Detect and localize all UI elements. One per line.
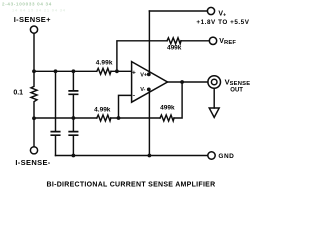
wire from I-SENSE+ down: [33, 33, 35, 71]
svg-text:I-SENSE+: I-SENSE+: [14, 15, 51, 24]
feedback row wire: [119, 82, 183, 118]
supply wire V- bottom: [148, 90, 150, 156]
svg-text:2-43-100033 04 34: 2-43-100033 04 34: [2, 1, 52, 6]
output arrow to ground: [213, 88, 215, 108]
ground rail: [56, 155, 208, 157]
terminal VSENSE OUT: [208, 76, 221, 89]
svg-text:+: +: [132, 69, 136, 76]
wire to I-SENSE-: [33, 118, 35, 146]
terminal GND: [208, 152, 215, 159]
VREF row wire: [117, 41, 209, 72]
wire inverting input jog: [119, 95, 132, 118]
output wire: [168, 81, 208, 83]
svg-text:V-: V-: [140, 87, 145, 93]
svg-text:OUT: OUT: [230, 87, 243, 93]
svg-text:V+: V+: [218, 11, 226, 19]
svg-text:4.99k: 4.99k: [94, 107, 111, 114]
terminal VREF: [209, 37, 216, 44]
bottom input rail wire: [34, 117, 119, 119]
terminal I-SENSE-: [30, 147, 37, 154]
svg-text:GND: GND: [218, 153, 234, 160]
resistor R4 499k (feedback): [160, 115, 174, 121]
svg-text:499k: 499k: [167, 45, 182, 52]
resistor R2 0.1 shunt: [31, 71, 37, 118]
svg-text:I-SENSE-: I-SENSE-: [15, 158, 50, 167]
op-amp U1: [132, 62, 168, 103]
terminal V+: [207, 7, 214, 14]
svg-text:+1.8V TO +5.5V: +1.8V TO +5.5V: [196, 19, 249, 26]
junction node dots: [32, 69, 36, 73]
resistor R1 4.99k (top): [97, 68, 111, 74]
supply wire V+ top: [148, 11, 150, 74]
resistor R5 499k (VREF): [167, 38, 181, 44]
top input rail wire: [34, 70, 132, 72]
svg-text:-: -: [133, 93, 135, 100]
svg-text:0.1: 0.1: [13, 90, 23, 97]
svg-text:V+: V+: [140, 73, 147, 79]
top rail to V+ terminal: [149, 10, 207, 12]
capacitor C3 (x=73.4 lower): [72, 118, 74, 156]
svg-text:14 04 15 34 21 04 34: 14 04 15 34 21 04 34: [12, 8, 66, 13]
resistor R3 4.99k (bottom): [97, 115, 111, 121]
terminal I-SENSE+: [30, 26, 37, 33]
svg-text:4.99k: 4.99k: [96, 60, 113, 67]
svg-text:BI-DIRECTIONAL CURRENT SENSE A: BI-DIRECTIONAL CURRENT SENSE AMPLIFIER: [47, 181, 216, 188]
svg-text:499k: 499k: [160, 104, 175, 111]
svg-text:VSENSE: VSENSE: [225, 77, 251, 87]
svg-text:VREF: VREF: [219, 38, 236, 46]
capacitor C2 (differential, x=73.4): [72, 71, 74, 118]
capacitor C1 branch (x=55.5): [55, 71, 57, 155]
